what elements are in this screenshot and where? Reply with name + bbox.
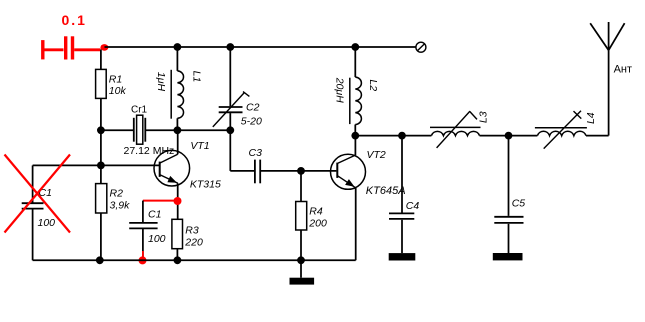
node bottom rail (red dot) (139, 256, 147, 264)
svg-text:200: 200 (308, 218, 327, 230)
svg-text:C5: C5 (512, 198, 526, 210)
svg-text:R2: R2 (110, 188, 124, 200)
resistor R4 (300, 171, 302, 202)
svg-text:Cr1: Cr1 (131, 105, 148, 116)
capacitor C3 (230, 170, 254, 172)
svg-text:10k: 10k (109, 85, 127, 97)
antenna (608, 50, 610, 135)
inductor L2 (354, 47, 356, 77)
inductor L1 (176, 47, 178, 71)
svg-text:KT315: KT315 (190, 179, 221, 191)
wire base row VT1 y=165.4 (33, 164, 159, 166)
wire top rail y=47 (105, 46, 416, 48)
inductor L4 variable (537, 131, 586, 135)
svg-text:100: 100 (38, 217, 56, 229)
svg-text:C1: C1 (148, 209, 161, 221)
svg-text:C3: C3 (249, 147, 263, 159)
svg-text:VT2: VT2 (367, 149, 386, 161)
wire bottom rail y=260.3 (33, 259, 356, 261)
deletion cross (red X) (5, 155, 71, 233)
svg-text:100: 100 (148, 233, 166, 245)
resistor R1 (96, 69, 107, 98)
svg-text:1μH: 1μH (155, 72, 167, 92)
capacitor C4 (401, 136, 403, 213)
capacitor C1 (crossed out branch) (32, 165, 34, 203)
transistor VT1 (177, 130, 179, 154)
svg-text:L3: L3 (478, 111, 490, 123)
svg-text:0.1: 0.1 (62, 12, 87, 28)
capacitor C2 variable (229, 47, 231, 106)
svg-text:VT1: VT1 (190, 140, 209, 152)
svg-text:20μH: 20μH (334, 77, 346, 103)
capacitor C1 (red marked branch) (142, 201, 144, 223)
node emitter junction (red dot) (174, 197, 182, 205)
svg-text:L1: L1 (191, 71, 203, 83)
node input junction (red dot) (100, 44, 108, 51)
svg-text:R1: R1 (109, 74, 122, 86)
node junctions (black dots) (96, 43, 513, 264)
wire red emitter node (143, 200, 178, 202)
svg-text:C2: C2 (246, 102, 260, 114)
wire base row VT2 (260, 170, 336, 172)
wire output rail y=135.6 (355, 135, 431, 137)
inductor L3 variable (431, 131, 479, 135)
ground C5 (493, 253, 523, 260)
svg-text:KT645A: KT645A (366, 185, 406, 197)
svg-text:L4: L4 (585, 112, 597, 124)
capacitor 0.1 input coupling (red) (43, 36, 101, 59)
resistor R2 (96, 184, 107, 213)
svg-text:L2: L2 (367, 79, 379, 91)
svg-text:5-20: 5-20 (241, 116, 262, 128)
core bar L1 (170, 70, 172, 119)
resistor R3 (172, 219, 183, 248)
capacitor C5 (508, 136, 510, 216)
svg-text:R3: R3 (185, 225, 199, 237)
terminal output (crossed circle) (416, 42, 426, 52)
core bar L2 (349, 78, 351, 124)
wire left rail x=101 (100, 50, 102, 70)
svg-text:3,9k: 3,9k (110, 200, 131, 212)
transistor VT2 (354, 136, 356, 156)
ground (300, 260, 302, 277)
wire y=130 Cr1 row (101, 129, 134, 131)
svg-text:C4: C4 (406, 200, 420, 212)
svg-text:220: 220 (184, 237, 203, 249)
crystal Cr1 (133, 118, 135, 142)
svg-text:R4: R4 (309, 206, 323, 218)
ground C4 (389, 253, 416, 260)
svg-text:Ант: Ант (614, 63, 632, 75)
